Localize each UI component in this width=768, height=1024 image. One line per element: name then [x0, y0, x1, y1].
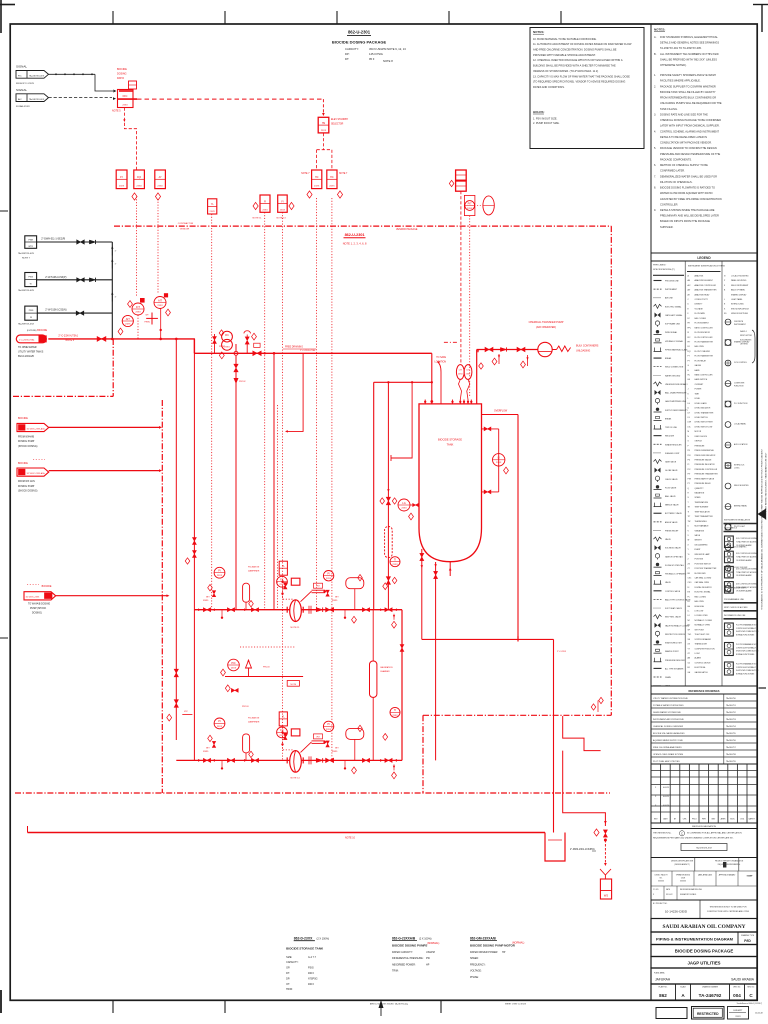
svg-text:FREE CHLORINE ANALYSERS: FREE CHLORINE ANALYSERS	[653, 746, 682, 749]
svg-text:11. AUTOMATIC ADJUSTMENT OF DO: 11. AUTOMATIC ADJUSTMENT OF DOSING RATES…	[533, 42, 632, 46]
dosing pump A	[290, 600, 302, 622]
svg-text:HYDRAULIC OPERATED: HYDRAULIC OPERATED	[665, 573, 687, 576]
svg-text:RESTRICTION ORIFICE: RESTRICTION ORIFICE	[665, 634, 686, 636]
svg-text:7.: 7.	[654, 174, 656, 178]
svg-text:LEVEL SWITCH HIGH: LEVEL SWITCH HIGH	[695, 422, 714, 424]
corner crop mark top-right	[761, 5, 763, 33]
mid relief cluster PIC	[228, 659, 240, 671]
svg-text:VENDOR: VENDOR	[180, 229, 190, 231]
svg-text:AFE/CC NO. XXXX ISsUED: TA-2: AFE/CC NO. XXXX ISsUED: TA-246792.dwg	[370, 1003, 408, 1006]
svg-text:ANGLE VALVE: ANGLE VALVE	[665, 521, 678, 524]
svg-text:SAUDI ARABIA: SAUDI ARABIA	[731, 977, 755, 981]
svg-text:TA-246792: TA-246792	[726, 711, 737, 714]
transmitter cluster AIT x160	[164, 293, 168, 297]
svg-text:PRESSURE RELAY: PRESSURE RELAY	[695, 482, 712, 485]
svg-text:MULTIVARIABLE: MULTIVARIABLE	[695, 525, 710, 528]
svg-text:REQUIREMENTS PER SAEP-334, UND: REQUIREMENTS PER SAEP-334, UNDER DRAWING…	[653, 837, 734, 840]
svg-text:PRESSURE TRANSMITTER: PRESSURE TRANSMITTER	[695, 473, 719, 476]
svg-text:FIRST CHOICE OF ACCESS: FIRST CHOICE OF ACCESS	[724, 606, 748, 609]
svg-text:BEHIND PANEL: BEHIND PANEL	[734, 505, 747, 508]
svg-text:NORMALLY CLOSED: NORMALLY CLOSED	[695, 619, 713, 622]
main header pipe to package	[48, 338, 195, 340]
svg-text:BREAK: BREAK	[665, 357, 672, 360]
svg-text:CONSTRUCTION UNTIL CERTIFIED A: CONSTRUCTION UNTIL CERTIFIED AND CITED	[707, 910, 750, 913]
svg-text:23XX: 23XX	[157, 186, 163, 188]
signal line dotted x211	[211, 214, 213, 610]
svg-text:SOLENOID VALVE: SOLENOID VALVE	[665, 547, 681, 550]
svg-text:WATER FLOW FROM AQUIFER WITH R: WATER FLOW FROM AQUIFER WITH RATIO	[660, 191, 713, 195]
svg-text:BACK OF PANEL: BACK OF PANEL	[731, 289, 745, 292]
svg-text:WATER GROUND: WATER GROUND	[665, 374, 681, 377]
vendor package boundary top	[114, 225, 611, 227]
level indicator LI on bridle	[493, 454, 505, 466]
svg-text:SAFETY: SAFETY	[749, 818, 756, 821]
svg-text:CONTROL DEVICE: CONTROL DEVICE	[695, 662, 712, 664]
svg-text:FLOW RATE: FLOW RATE	[695, 312, 706, 315]
svg-text:START/CHECK SET: START/CHECK SET	[665, 642, 683, 645]
train B PI discharge	[323, 721, 333, 731]
svg-text:LOCKED OPEN: LOCKED OPEN	[695, 615, 709, 617]
svg-text:NOTE 8: NOTE 8	[383, 59, 393, 63]
analyzer cluster AIT x128	[122, 315, 133, 326]
svg-text:ABSORBED POWER:: ABSORBED POWER:	[392, 963, 416, 966]
svg-text:DRAWING TYPE: DRAWING TYPE	[741, 934, 755, 937]
utility header pipe 3	[37, 312, 112, 314]
svg-text:TEMPERATURE: TEMPERATURE	[695, 501, 709, 504]
svg-text:23XX: 23XX	[401, 507, 407, 509]
svg-text:EXEMPT: EXEMPT	[734, 1010, 744, 1012]
svg-text:CAPACITY:: CAPACITY:	[345, 47, 359, 51]
svg-text:LATER WITH INPUT FROM CHEMICAL: LATER WITH INPUT FROM CHEMICAL SUPPLIER.	[660, 124, 720, 128]
svg-text:FAIL CLOSED: FAIL CLOSED	[695, 595, 707, 598]
svg-text:FAIL OPEN: FAIL OPEN	[695, 600, 705, 603]
svg-text:PI: PI	[218, 719, 221, 723]
svg-text:PLANT NO.: PLANT NO.	[659, 985, 668, 988]
relief return header	[225, 676, 303, 678]
svg-text:TA-2697XX-0XX: TA-2697XX-0XX	[18, 252, 35, 255]
svg-text:DCS SYMBOLS: DCS SYMBOLS	[724, 528, 738, 530]
svg-text:PI: PI	[327, 722, 330, 726]
svg-text:PSIG: PSIG	[308, 967, 314, 970]
svg-text:UNLOADING PUMPS WILL BE REQUIR: UNLOADING PUMPS WILL BE REQUIRED FOR THE	[660, 101, 722, 105]
svg-text:DEMINERALIZED WATER SHALL BE U: DEMINERALIZED WATER SHALL BE USED FOR	[660, 174, 717, 178]
svg-text:AIR LINE: AIR LINE	[665, 297, 673, 300]
flow controller loop FIC	[222, 331, 233, 342]
svg-text:JAFURAH: JAFURAH	[655, 977, 671, 981]
svg-text:NOTE: NOTE	[291, 684, 297, 686]
svg-text:1": 1"	[115, 251, 117, 253]
control valve on riser	[246, 343, 248, 353]
svg-text:FRWD: FRWD	[332, 751, 338, 753]
svg-text:INSTRUMENT IDENTIFICATION LETT: INSTRUMENT IDENTIFICATION LETTERS	[688, 265, 726, 268]
svg-text:VOLTAGE: VOLTAGE	[695, 307, 704, 310]
svg-text:4-8-XX: 4-8-XX	[663, 796, 670, 798]
svg-text:PROGRAMMABLE LINE: PROGRAMMABLE LINE	[724, 598, 745, 601]
svg-text:FACILITIES WHERE APPLICABLE.: FACILITIES WHERE APPLICABLE.	[660, 79, 701, 83]
svg-text:GATE W/ OPEN TAG: GATE W/ OPEN TAG	[665, 555, 683, 558]
svg-text:862: 862	[659, 993, 667, 998]
svg-text:B.: B.	[654, 52, 657, 56]
svg-text:DETAILS SHOWN INSIDE THE PACKA: DETAILS SHOWN INSIDE THE PACKAGE ARE	[660, 208, 715, 212]
svg-text:NOTE 5: NOTE 5	[112, 109, 121, 112]
controller HC A	[312, 170, 322, 189]
svg-text:23XX: 23XX	[392, 715, 398, 717]
svg-text:PRC03: PRC03	[242, 706, 249, 708]
svg-text:5.: 5.	[654, 146, 656, 150]
svg-text:GOVERNMENT RESTRICTED DOCUMENT: GOVERNMENT RESTRICTED DOCUMENT - SAUDI A…	[765, 452, 768, 520]
svg-text:VER. NO.: VER. NO.	[733, 986, 741, 988]
train B drain ticks	[221, 760, 223, 767]
svg-text:10. BUND MATERIAL TO BE SUITAB: 10. BUND MATERIAL TO BE SUITABLE FOR BIO…	[533, 37, 597, 41]
svg-text:862-GM-23XXA/B: 862-GM-23XXA/B	[470, 936, 497, 940]
svg-text:TA-246796: TA-246796	[726, 739, 737, 742]
svg-text:LIGHT PANEL: LIGHT PANEL	[731, 298, 743, 301]
svg-text:LI: LI	[498, 456, 500, 460]
svg-text:12. CHEMICAL INJECTION PACKAGE: 12. CHEMICAL INJECTION PACKAGE WHICH IS …	[533, 58, 623, 62]
suction drop x373	[373, 382, 375, 609]
svg-text:BIOCIDE DOSING PUMPS: BIOCIDE DOSING PUMPS	[392, 944, 427, 948]
svg-text:LEVEL GLASS: LEVEL GLASS	[695, 402, 708, 405]
svg-text:FROM INTERMEDIATE BULK CONTAIN: FROM INTERMEDIATE BULK CONTAINERS OR	[660, 96, 716, 100]
svg-text:PIC: PIC	[231, 661, 235, 665]
svg-text:23XX: 23XX	[217, 575, 223, 577]
svg-text:PRESSURE AND DESIGN TEMPERATUR: PRESSURE AND DESIGN TEMPERATURE OF THE	[660, 152, 720, 156]
gauge glass LG left side	[398, 499, 410, 511]
svg-text:INGRESS OF STORM WATER. (TO-0*: INGRESS OF STORM WATER. (TO-0*100% PARA.…	[533, 69, 598, 73]
svg-text:SOFTWARE LINK: SOFTWARE LINK	[665, 323, 681, 326]
svg-text:95 F: 95 F	[369, 57, 375, 61]
svg-text:VALVE: VALVE	[665, 581, 671, 584]
train A net-frwd double bar	[312, 589, 326, 591]
svg-text:ORIFICE: ORIFICE	[695, 441, 703, 443]
svg-text:WELD CONNECTION: WELD CONNECTION	[665, 367, 684, 369]
suction block valves train A	[192, 538, 196, 545]
signal line dotted x469	[469, 216, 471, 396]
svg-text:W: W	[688, 540, 690, 542]
svg-text:FROM WX GCN: FROM WX GCN	[18, 481, 35, 483]
svg-text:CONFIRMED LATER.: CONFIRMED LATER.	[660, 169, 685, 173]
svg-text:23XX: 23XX	[466, 374, 471, 376]
certification block	[651, 829, 757, 858]
svg-text:PRESSURE CONTROLLER: PRESSURE CONTROLLER	[695, 469, 718, 471]
svg-text:XXXXXX: XXXXXX	[680, 881, 686, 883]
svg-text:BULK CONTAINERS: BULK CONTAINERS	[576, 344, 599, 347]
svg-text:XX-X-XX: XX-X-XX	[666, 894, 673, 896]
svg-text:SHUTDOWN DEVICE: SHUTDOWN DEVICE	[731, 308, 750, 310]
vendor package boundary inner vertical	[422, 715, 424, 793]
train A pump suction valve	[283, 583, 287, 589]
match line arrow right border	[758, 509, 767, 520]
svg-text:PWS: PWS	[29, 310, 34, 312]
svg-text:(2 X 100%): (2 X 100%)	[419, 937, 432, 940]
train B net-frwd double bar	[312, 740, 326, 742]
svg-text:004: 004	[733, 993, 741, 998]
svg-text:23XX: 23XX	[326, 578, 332, 580]
svg-text:ATSPSG: ATSPSG	[308, 977, 318, 980]
svg-text:TA-2467XX-0XX: TA-2467XX-0XX	[29, 74, 45, 77]
left border tick	[0, 210, 8, 212]
transmitter FIT x138	[140, 298, 145, 303]
svg-text:GATE VALVE: GATE VALVE	[665, 461, 677, 464]
svg-text:RATES AND CONDITIONS.: RATES AND CONDITIONS.	[533, 85, 565, 89]
svg-text:NOTES:: NOTES:	[533, 30, 544, 34]
dosing pump train A header	[194, 609, 402, 611]
jog to free-draining header	[193, 339, 195, 353]
svg-text:453.6 USGPM NOTE 9, 12, 13: 453.6 USGPM NOTE 9, 12, 13	[369, 47, 406, 51]
svg-text:23XX: 23XX	[125, 323, 131, 325]
svg-text:C: C	[681, 831, 683, 835]
svg-text:NOTE 7: NOTE 7	[301, 173, 310, 175]
svg-text:FLANGED JOINT: FLANGED JOINT	[665, 452, 680, 455]
train B discharge valve 2	[362, 758, 369, 762]
instrument circle-in-square PIT	[464, 195, 475, 215]
svg-text:LG: LG	[402, 501, 405, 505]
svg-text:23XX: 23XX	[224, 346, 230, 348]
svg-text:POWER: POWER	[695, 389, 702, 391]
svg-text:DOSING RATE AND LINE SIZE FOR: DOSING RATE AND LINE SIZE FOR THE	[660, 112, 708, 116]
diamonds near boundary corner	[599, 697, 604, 703]
svg-text:FLOW INDICATOR: FLOW INDICATOR	[695, 331, 711, 334]
svg-text:NOTES:: NOTES:	[654, 27, 665, 31]
svg-text:23XX: 23XX	[231, 667, 237, 669]
svg-text:WIRE SIGNAL: WIRE SIGNAL	[665, 331, 677, 334]
svg-text:SPEED: SPEED	[695, 497, 702, 499]
svg-text:DOSING PUMP: DOSING PUMP	[18, 441, 35, 443]
svg-text:PRESS SAFETY VALVE: PRESS SAFETY VALVE	[695, 477, 715, 480]
svg-text:TA-246790: TA-246790	[726, 697, 737, 700]
svg-text:INSTRUMENT: INSTRUMENT	[734, 324, 747, 326]
notes box left	[530, 28, 644, 149]
svg-text:VENDOR SUPPLIED: VENDOR SUPPLIED	[731, 313, 749, 315]
svg-text:DOSING): DOSING)	[32, 613, 42, 615]
svg-text:REV. NO.: REV. NO.	[747, 986, 755, 988]
svg-text:AIC: AIC	[18, 98, 22, 101]
svg-text:1/2"-BIOC-23XX-A1A: 1/2"-BIOC-23XX-A1A	[27, 472, 46, 475]
signal line dotted x332	[331, 198, 333, 760]
svg-text:W: W	[30, 284, 32, 286]
svg-text:PI: PI	[218, 569, 221, 573]
svg-text:DP:: DP:	[345, 52, 350, 56]
svg-text:OP:: OP:	[286, 967, 290, 970]
svg-text:BIOCIDE: BIOCIDE	[37, 329, 47, 332]
pipe into funnel	[604, 840, 606, 863]
legend PLC symbol boxes	[725, 623, 734, 636]
svg-text:1. PSV IN/OUT SIZE.: 1. PSV IN/OUT SIZE.	[533, 117, 558, 121]
svg-text:AIT: AIT	[126, 317, 130, 321]
svg-text:TA-246793: TA-246793	[726, 718, 737, 721]
svg-text:FIRST LETTER: FIRST LETTER	[740, 335, 753, 337]
control valve PRC02 on header	[214, 334, 216, 353]
wire ratio station down	[124, 108, 136, 171]
svg-text:SET POINT: SET POINT	[695, 629, 705, 631]
svg-text:DIFFERENTIAL PRESSURE:: DIFFERENTIAL PRESSURE:	[392, 957, 424, 960]
svg-text:DISCRETE: DISCRETE	[734, 321, 744, 323]
signal line dotted x317	[316, 198, 318, 610]
train A relief diamonds	[352, 616, 357, 623]
svg-text:MOTOR: MOTOR	[695, 431, 702, 433]
svg-text:DCS CONTROL: DCS CONTROL	[734, 362, 747, 364]
instrument square pair FQI	[260, 195, 270, 212]
svg-text:TW: TW	[688, 521, 691, 523]
svg-text:TA-246799: TA-246799	[726, 760, 737, 763]
svg-text:23XX: 23XX	[467, 208, 473, 210]
svg-text:SHALL BE PREFIXED WITH "862-2X: SHALL BE PREFIXED WITH "862-2XX" (UNLESS	[660, 57, 717, 61]
svg-text:FROM WX4A/B: FROM WX4A/B	[18, 436, 35, 439]
svg-text:NOTE 10: NOTE 10	[345, 837, 356, 840]
train B motor	[291, 729, 300, 736]
drain drop to sump	[553, 639, 555, 832]
svg-text:EVENT: EVENT	[695, 549, 702, 551]
svg-text:VALVE NORMALLY CLOSED: VALVE NORMALLY CLOSED	[665, 624, 690, 627]
line flag 2in W-5106 P (input)	[25, 273, 37, 287]
drain step detail	[563, 716, 601, 751]
svg-text:NOTE 11: NOTE 11	[291, 627, 301, 629]
svg-text:RESTRICTED: RESTRICTED	[697, 1012, 719, 1016]
pump discharge header	[401, 610, 403, 761]
svg-text:BIOCIDE: BIOCIDE	[18, 462, 28, 465]
svg-text:(SHOCK DOSING): (SHOCK DOSING)	[18, 490, 38, 492]
svg-text:PDI: PDI	[688, 455, 691, 457]
svg-text:ANALYSIS CONTROLLER: ANALYSIS CONTROLLER	[695, 284, 717, 287]
level standpipe x412	[391, 382, 412, 458]
svg-text:PROJ: PROJ	[692, 819, 697, 821]
project number row	[651, 900, 757, 919]
svg-text:TO SAFE: TO SAFE	[436, 356, 446, 359]
title location row	[651, 968, 757, 984]
svg-text:LOCATION: LOCATION	[435, 361, 447, 364]
svg-text:PIPING MATERIAL CLASS: PIPING MATERIAL CLASS	[665, 348, 688, 351]
train A suction valves	[198, 608, 201, 611]
sump pit	[545, 833, 565, 862]
svg-text:DENSITY: DENSITY	[695, 304, 704, 306]
train A PI discharge	[323, 571, 333, 581]
svg-text:CODE: CODE	[681, 878, 685, 880]
title package row	[651, 945, 757, 957]
svg-text:BUILDING SHALL BE PROVIDED WIT: BUILDING SHALL BE PROVIDED WITH A SHELTE…	[533, 64, 616, 68]
svg-text:(DESIGN AGENCY): (DESIGN AGENCY)	[674, 863, 690, 866]
svg-text:FLOW TOTALIZER: FLOW TOTALIZER	[695, 350, 711, 353]
svg-text:FIC/AN-XXXX: FIC/AN-XXXX	[16, 105, 30, 108]
svg-text:BIOCIDE: BIOCIDE	[18, 417, 28, 420]
svg-text:BIOCIDE DOSING PUMP MOTOR: BIOCIDE DOSING PUMP MOTOR	[470, 944, 516, 948]
svg-text:CONSULTATION WITH PACKAGE VEND: CONSULTATION WITH PACKAGE VENDOR.	[660, 141, 712, 145]
svg-text:VALVE: VALVE	[695, 534, 701, 537]
train A flow controller	[277, 576, 288, 587]
train A pulsation dampener	[245, 602, 247, 610]
svg-text:COMPUTER: COMPUTER	[734, 383, 745, 385]
svg-text:862-D-23XX: 862-D-23XX	[294, 936, 313, 940]
svg-text:HP: HP	[426, 963, 430, 966]
svg-text:4.: 4.	[654, 129, 656, 133]
svg-text:REVISION VALIDATION: REVISION VALIDATION	[692, 825, 716, 828]
svg-text:(FUTURE): (FUTURE)	[27, 330, 37, 332]
svg-text:VALVE: VALVE	[665, 538, 671, 541]
pipe down to fill header	[431, 353, 433, 404]
svg-text:PRESS DIFFERENTIAL: PRESS DIFFERENTIAL	[695, 449, 714, 452]
svg-text:ELECTRIC SIGNAL: ELECTRIC SIGNAL	[695, 591, 711, 594]
svg-text:DOSING PUMP: DOSING PUMP	[18, 486, 35, 488]
diaphragm seal oval instrument	[483, 196, 494, 215]
svg-text:HS: HS	[322, 122, 326, 125]
svg-text:SPECIFICATIONS (P): SPECIFICATIONS (P)	[653, 268, 675, 271]
svg-text:FLOW ELEMENT: FLOW ELEMENT	[695, 323, 710, 325]
train A spec break	[308, 606, 310, 614]
svg-text:SUCCEEDING: SUCCEEDING	[740, 339, 752, 341]
svg-text:SAMPLE POINT: SAMPLE POINT	[665, 650, 680, 653]
svg-text:VOLTAGE:: VOLTAGE:	[470, 970, 482, 973]
train B dampener discharge	[346, 728, 364, 739]
suction drop x388 with calibration chamber	[387, 382, 389, 609]
svg-text:BUTTERFLY VALVE: BUTTERFLY VALVE	[665, 512, 683, 515]
tank outlet to dosing pumps	[435, 562, 437, 760]
svg-text:PACKAGE COMPONENTS.: PACKAGE COMPONENTS.	[660, 157, 692, 161]
svg-text:SELECTOR: SELECTOR	[331, 124, 344, 126]
signal line dotted x137	[136, 197, 138, 297]
svg-text:BASED ON INPUTS FROM THE PACKA: BASED ON INPUTS FROM THE PACKAGE	[660, 219, 710, 223]
relief leg x303	[287, 353, 303, 431]
svg-text:PRESSURE INDICATOR: PRESSURE INDICATOR	[695, 463, 716, 466]
svg-text:HAND SWITCH: HAND SWITCH	[695, 378, 708, 381]
svg-text:NORMALLY OPEN: NORMALLY OPEN	[695, 624, 711, 627]
diamonds under squares	[132, 193, 137, 200]
train A motor	[291, 578, 300, 585]
svg-text:CAPILLARY SIGNAL: CAPILLARY SIGNAL	[665, 314, 682, 317]
train B TI	[390, 707, 400, 717]
drain header under tank	[422, 638, 554, 640]
svg-text:FLOW TRANSMITTER: FLOW TRANSMITTER	[695, 340, 714, 343]
svg-text:NOTE 1, 2, 3, 4, 6, 8: NOTE 1, 2, 3, 4, 6, 8	[343, 241, 367, 245]
train B pressure indicator	[214, 718, 225, 729]
svg-text:FUNCTION: FUNCTION	[734, 386, 744, 388]
svg-text:TI: TI	[394, 558, 397, 562]
svg-text:CONDUCTIVITY: CONDUCTIVITY	[695, 299, 709, 301]
svg-text:WS: WS	[604, 894, 608, 898]
svg-text:CALIBRATION: CALIBRATION	[380, 666, 393, 669]
signal line dotted x158	[157, 199, 159, 293]
svg-text:2"-C-23XX-UT5A1: 2"-C-23XX-UT5A1	[19, 339, 35, 342]
svg-text:PROVIDE SAFETY SHOWERS AND EYE: PROVIDE SAFETY SHOWERS AND EYE WASH	[660, 73, 716, 77]
svg-text:2"-W-5106-1CS3(P): 2"-W-5106-1CS3(P)	[45, 276, 66, 279]
svg-text:2.: 2.	[654, 84, 656, 88]
svg-text:TA-2467XX-0XX: TA-2467XX-0XX	[29, 98, 45, 101]
svg-text:TA-2697XX-0XX: TA-2697XX-0XX	[18, 323, 35, 326]
svg-text:3.: 3.	[654, 112, 656, 116]
line flag 2in DWH (input)	[25, 236, 37, 249]
train A discharge valve 1	[326, 608, 334, 612]
instrument square FY 3	[155, 170, 166, 189]
svg-text:FROM FT-1 XXXX: FROM FT-1 XXXX	[16, 83, 35, 85]
svg-text:NOTE 7: NOTE 7	[22, 258, 31, 260]
svg-text:Saudi Aramco 0000-1 (11/2017): Saudi Aramco 0000-1 (11/2017)	[737, 1002, 763, 1005]
tank outlet valve left	[421, 549, 423, 639]
frame tick marks top	[112, 11, 114, 24]
level transmitter LIT on tank	[456, 365, 464, 380]
svg-text:DETAILS TO BE DEVELOPED LATER: DETAILS TO BE DEVELOPED LATER IN	[660, 135, 707, 139]
svg-text:FOR STANDARD SYMBOLS, ELEGEND/: FOR STANDARD SYMBOLS, ELEGEND/TYPICAL	[660, 35, 718, 39]
svg-text:OPEN/CLOSED DRAIN SYSTEM: OPEN/CLOSED DRAIN SYSTEM	[653, 753, 683, 756]
svg-text:460 F: 460 F	[308, 972, 315, 975]
train B spec break	[308, 756, 310, 764]
svg-text:REDUCER: REDUCER	[665, 436, 675, 438]
signal line dashed x461 to LIT	[460, 191, 462, 365]
svg-text:BIOCIDE DOSING FLOWRATE IS RAT: BIOCIDE DOSING FLOWRATE IS RATIOED TO	[660, 186, 715, 190]
svg-text:PWR: PWR	[28, 239, 33, 241]
approval grid	[651, 858, 757, 901]
legend box	[651, 253, 757, 686]
svg-text:PWS: PWS	[28, 277, 33, 279]
svg-text:PRESS DIFF INDICATOR: PRESS DIFF INDICATOR	[695, 454, 717, 457]
frame tick marks bottom	[112, 1000, 114, 1013]
